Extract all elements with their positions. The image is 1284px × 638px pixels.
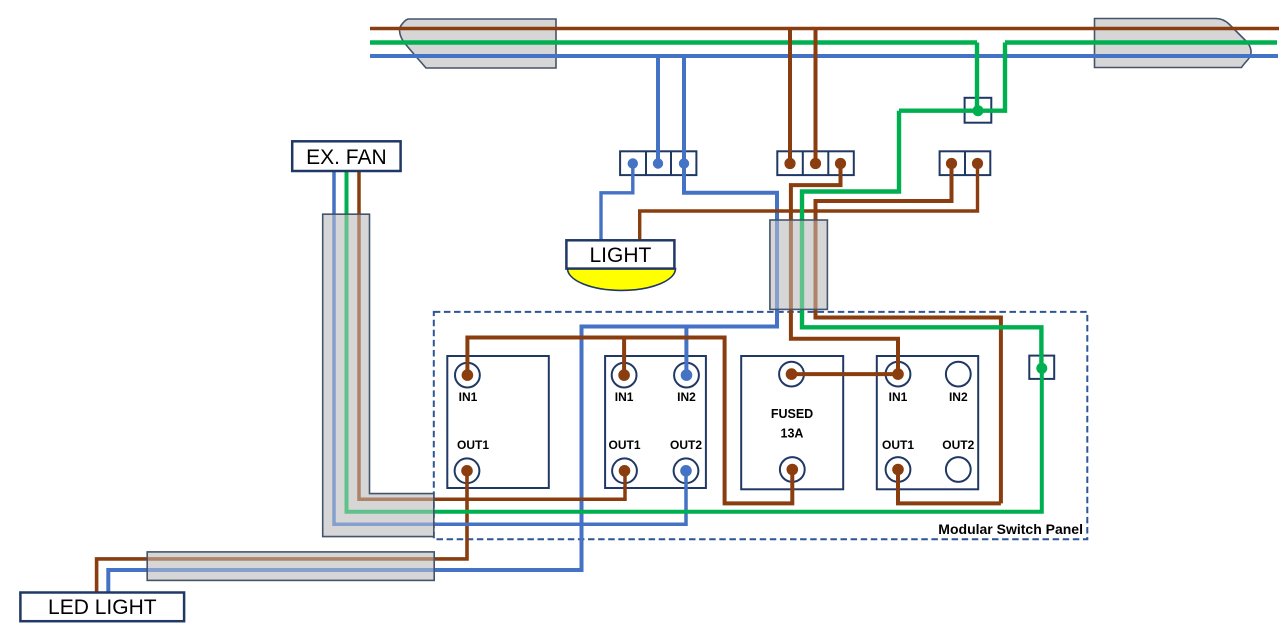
wire: earth drop to JB4	[975, 43, 979, 111]
wire: LED live return (brown, M1 OUT1 to LED light)	[97, 471, 467, 592]
svg-text:IN1: IN1	[889, 390, 908, 404]
wire: fan earth (JB5 to EX.FAN, green)	[347, 171, 1042, 512]
svg-text:FUSED: FUSED	[771, 407, 813, 421]
wire: fan neutral (M2 OUT2 to EX.FAN, blue)	[334, 171, 686, 524]
svg-text:IN2: IN2	[949, 390, 968, 404]
neutral bus N (blue)	[370, 54, 1278, 58]
switch module M4 (2-gang)	[877, 356, 978, 489]
connector block JB1 (neutral, 3-way)	[620, 151, 696, 175]
earth bus E right segment (green)	[1005, 40, 1277, 44]
svg-text:IN2: IN2	[677, 390, 696, 404]
wire: neutral feed to LIGHT	[601, 164, 633, 242]
wire: earth tee through JB4	[899, 43, 1005, 111]
wire: live drop to JB2 cell1	[788, 29, 792, 164]
wire: neutral branch to M2 IN2	[684, 327, 688, 376]
svg-text:OUT2: OUT2	[942, 438, 974, 452]
lamp dome	[568, 269, 676, 291]
conduit drop (ceiling to panel)	[770, 220, 828, 309]
svg-text:IN1: IN1	[459, 390, 478, 404]
live bus L (brown)	[370, 27, 1279, 31]
node: JB5 earth joint	[1036, 363, 1047, 374]
wire: live drop to JB2 cell2	[814, 29, 818, 164]
wire: rail drop to M2 IN1	[622, 338, 626, 376]
conduit LED underlay	[147, 552, 434, 581]
fused connection unit M3 (FUSED 13A)	[741, 356, 843, 489]
node: M2 terminal dots	[618, 369, 630, 381]
svg-text:13A: 13A	[781, 427, 804, 441]
switch module M1 (1-gang)	[447, 356, 549, 488]
wire: earth run JB4 to JB5 (green)	[802, 111, 1041, 369]
earth bus E left segment (green)	[370, 40, 977, 44]
wire: neutral drop to JB1 cell3	[682, 56, 686, 164]
node: M4 terminal dots	[892, 368, 904, 380]
svg-text:OUT1: OUT1	[457, 438, 489, 452]
node: JB4 earth joint	[973, 105, 984, 116]
panel enclosure (dashed)	[434, 312, 1088, 539]
ceiling conduit right	[1095, 19, 1252, 68]
wire: live link M3 IN to M4 IN1	[792, 372, 899, 376]
svg-text:OUT1: OUT1	[882, 438, 914, 452]
connector block JB3 (live, 2-way)	[940, 151, 991, 175]
wire: switched live rail (M3 OUT to M1/M2 IN1)	[467, 338, 792, 504]
label box EX. FAN	[292, 141, 400, 171]
label box LED LIGHT	[20, 593, 184, 622]
label box LIGHT	[566, 240, 674, 268]
ceiling conduit left	[400, 19, 556, 68]
wire: live feed JB2 to M4 IN1 (brown)	[791, 164, 898, 375]
wire: neutral drop to JB1 cell2	[656, 56, 660, 164]
wire: live feed to LIGHT (brown)	[640, 164, 978, 242]
junction box JB5 (earth, panel)	[1029, 356, 1054, 379]
connector block JB2 (live, 3-way)	[777, 151, 854, 175]
svg-text:IN1: IN1	[615, 390, 634, 404]
conduit L-run (EX.FAN to panel)	[323, 214, 434, 536]
svg-text:OUT1: OUT1	[608, 438, 640, 452]
conduit run (LED light)	[147, 552, 434, 581]
svg-text:LED LIGHT: LED LIGHT	[48, 596, 157, 619]
node: M1 terminal dots	[462, 369, 474, 381]
node: JB3 live terminals	[946, 158, 983, 169]
svg-text:EX. FAN: EX. FAN	[306, 146, 387, 169]
node: JB1 neutral terminals	[628, 158, 690, 168]
node: M3 terminal dots	[786, 368, 798, 380]
wire: live run JB3 to M4 OUT1 (brown)	[816, 164, 1001, 504]
conduit drop underlay	[770, 220, 828, 309]
wire: M4 OUT1 bottom rail	[898, 470, 1001, 504]
wire: fan live (M2 OUT1 to EX.FAN, brown)	[359, 171, 625, 499]
switch module M2 (2-gang)	[605, 356, 706, 488]
wire: neutral run JB1 to panel (blue)	[108, 164, 777, 593]
svg-text:OUT2: OUT2	[670, 438, 702, 452]
conduit L-run underlay	[323, 214, 434, 536]
svg-text:LIGHT: LIGHT	[589, 244, 651, 267]
junction box JB4 (earth tee, ceiling)	[965, 98, 992, 123]
svg-text:Modular Switch Panel: Modular Switch Panel	[938, 521, 1083, 537]
node: JB2 live terminals	[784, 158, 846, 169]
